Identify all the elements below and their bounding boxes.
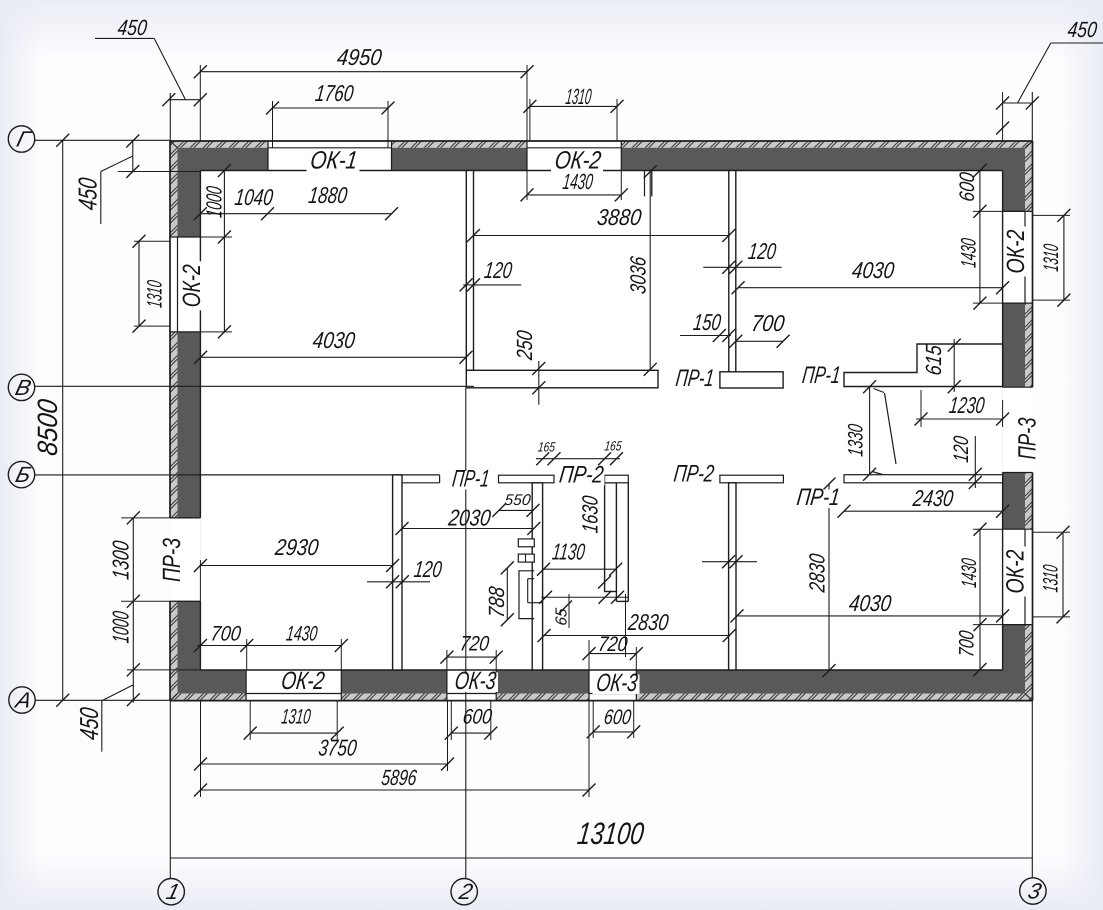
svg-text:1000: 1000 — [202, 184, 227, 219]
svg-text:3750: 3750 — [317, 735, 358, 761]
svg-text:ПР-2: ПР-2 — [672, 461, 715, 488]
svg-text:550: 550 — [504, 492, 532, 509]
svg-text:ПР-1: ПР-1 — [795, 484, 841, 511]
svg-text:1310: 1310 — [280, 706, 312, 729]
svg-text:4030: 4030 — [848, 590, 893, 616]
svg-text:120: 120 — [950, 435, 973, 464]
svg-text:2830: 2830 — [805, 552, 830, 594]
svg-text:1760: 1760 — [314, 80, 355, 106]
svg-text:1310: 1310 — [144, 279, 167, 309]
svg-text:ПР-3: ПР-3 — [1014, 417, 1042, 459]
svg-text:1310: 1310 — [1040, 563, 1063, 593]
svg-text:700: 700 — [209, 623, 242, 646]
svg-text:ОК-2: ОК-2 — [553, 147, 603, 175]
svg-text:1310: 1310 — [1040, 243, 1063, 273]
svg-text:120: 120 — [747, 238, 778, 264]
svg-text:4030: 4030 — [311, 327, 356, 353]
svg-text:165: 165 — [604, 439, 623, 454]
svg-text:1310: 1310 — [564, 84, 593, 109]
svg-text:1130: 1130 — [551, 539, 587, 565]
svg-text:120: 120 — [483, 257, 514, 283]
svg-text:600: 600 — [956, 171, 979, 203]
svg-text:720: 720 — [597, 633, 629, 656]
svg-text:1430: 1430 — [958, 237, 981, 269]
svg-text:1000: 1000 — [108, 610, 134, 645]
svg-text:5896: 5896 — [380, 765, 419, 790]
svg-text:450: 450 — [74, 705, 104, 741]
svg-text:2830: 2830 — [626, 609, 670, 635]
svg-text:1040: 1040 — [233, 184, 274, 210]
svg-text:ПР-1: ПР-1 — [801, 362, 842, 389]
svg-text:165: 165 — [537, 440, 556, 455]
svg-text:ПР-1: ПР-1 — [674, 365, 715, 392]
svg-text:450: 450 — [73, 176, 103, 212]
svg-text:2030: 2030 — [446, 505, 492, 531]
svg-text:ОК-2: ОК-2 — [1002, 229, 1030, 273]
svg-text:13100: 13100 — [576, 816, 646, 851]
svg-text:3036: 3036 — [626, 254, 651, 295]
svg-text:700: 700 — [750, 310, 786, 336]
svg-text:1630: 1630 — [578, 494, 603, 535]
svg-text:ОК-3: ОК-3 — [595, 669, 639, 697]
svg-text:2430: 2430 — [911, 485, 955, 511]
svg-text:2930: 2930 — [273, 534, 320, 560]
svg-text:1300: 1300 — [108, 539, 134, 581]
svg-text:ОК-1: ОК-1 — [309, 147, 359, 175]
svg-text:4030: 4030 — [851, 257, 896, 283]
svg-text:1330: 1330 — [845, 423, 868, 458]
svg-text:ОК-2: ОК-2 — [178, 264, 206, 307]
svg-text:ПР-3: ПР-3 — [158, 538, 186, 582]
svg-text:120: 120 — [413, 556, 444, 582]
svg-text:450: 450 — [1066, 17, 1099, 42]
svg-text:ПР-1: ПР-1 — [451, 466, 491, 493]
svg-text:720: 720 — [459, 633, 491, 656]
svg-text:615: 615 — [921, 343, 946, 377]
svg-text:788: 788 — [484, 584, 509, 619]
svg-text:65: 65 — [554, 607, 571, 626]
svg-text:600: 600 — [603, 706, 633, 729]
svg-text:ОК-3: ОК-3 — [453, 667, 497, 695]
svg-text:1430: 1430 — [958, 557, 981, 589]
svg-text:8500: 8500 — [32, 397, 63, 457]
svg-text:ПР-2: ПР-2 — [558, 462, 605, 489]
svg-text:ОК-2: ОК-2 — [1002, 549, 1030, 593]
svg-text:ОК-2: ОК-2 — [280, 667, 327, 695]
svg-text:1880: 1880 — [307, 182, 349, 208]
svg-text:700: 700 — [956, 629, 979, 658]
svg-text:3880: 3880 — [596, 204, 643, 230]
svg-text:250: 250 — [512, 328, 537, 361]
svg-text:1230: 1230 — [948, 392, 986, 418]
svg-text:4950: 4950 — [336, 44, 384, 70]
svg-text:150: 150 — [692, 309, 723, 335]
svg-text:450: 450 — [116, 15, 149, 40]
svg-text:600: 600 — [461, 706, 493, 729]
svg-text:1430: 1430 — [285, 623, 319, 646]
